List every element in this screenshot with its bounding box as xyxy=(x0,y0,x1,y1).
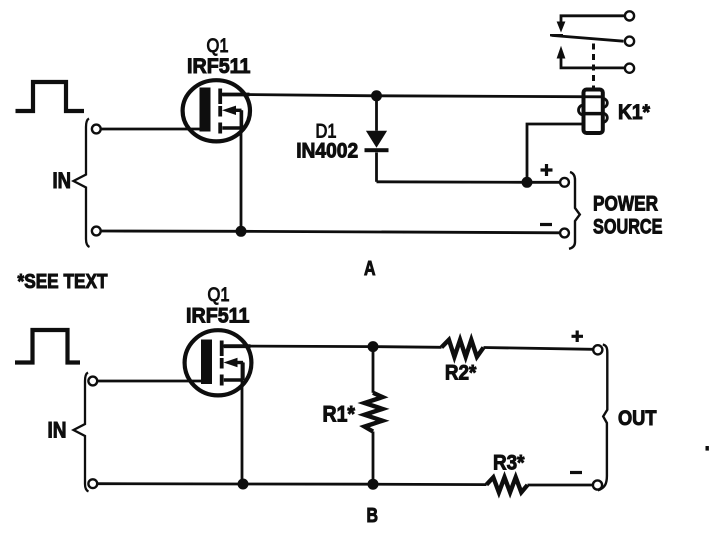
wire drain B xyxy=(223,346,442,347)
power minus terminal xyxy=(560,229,569,238)
svg-text:K1*: K1* xyxy=(618,101,651,124)
relay armature pivot tick xyxy=(550,34,563,36)
relay coil K1 xyxy=(579,90,608,134)
plus sign A xyxy=(541,164,553,176)
relay NO contact line with up arrow xyxy=(557,46,625,68)
relay contact terminal 1 xyxy=(625,11,634,20)
wire R2 to plus terminal B xyxy=(484,348,593,350)
svg-text:IN: IN xyxy=(48,418,67,443)
svg-text:*SEE TEXT: *SEE TEXT xyxy=(18,271,108,293)
wire bottom rail B left xyxy=(97,482,486,486)
OUT side brace wire xyxy=(598,345,608,491)
input pulse waveform A xyxy=(16,82,85,111)
OUT plus terminal xyxy=(593,345,602,354)
IN bottom terminal A xyxy=(92,227,101,236)
wire source A xyxy=(240,110,243,231)
resistor R3 xyxy=(487,477,528,492)
wire drain A xyxy=(222,94,602,97)
transistor Q1 (B) xyxy=(185,330,252,395)
node drain-diode junction A xyxy=(371,90,382,101)
node source junction B xyxy=(238,479,249,490)
IN brace B xyxy=(74,373,89,492)
IN top terminal B xyxy=(88,377,97,386)
wire diode to plus node A xyxy=(377,180,560,183)
node top junction B xyxy=(368,341,379,352)
transistor Q1 (A) xyxy=(183,80,250,141)
input pulse waveform B xyxy=(15,330,80,363)
IN bottom terminal B xyxy=(88,479,97,488)
plus sign B xyxy=(572,331,584,343)
resistor R1 xyxy=(365,347,383,485)
wire bottom rail A xyxy=(101,231,560,233)
node R1 bottom junction B xyxy=(368,479,379,490)
node source junction A xyxy=(236,226,247,237)
svg-text:POWER: POWER xyxy=(593,191,658,215)
svg-text:SOURCE: SOURCE xyxy=(593,215,663,239)
minus sign B xyxy=(570,471,582,474)
power source brace xyxy=(569,172,580,249)
wire gate B xyxy=(97,380,206,383)
OUT minus terminal xyxy=(593,480,602,489)
wire coil bottom to plus node A xyxy=(527,124,584,182)
minus sign A xyxy=(540,223,552,226)
svg-text:IN: IN xyxy=(53,168,72,193)
relay linkage dashed line xyxy=(592,44,595,89)
stray mark xyxy=(706,446,709,451)
relay contact terminal 3 xyxy=(625,64,634,73)
IN brace A xyxy=(74,119,90,248)
wire gate A xyxy=(101,128,205,131)
node plus junction A xyxy=(522,177,533,188)
svg-text:Q1: Q1 xyxy=(208,285,230,306)
power plus terminal xyxy=(560,178,569,187)
IN top terminal A xyxy=(92,125,101,134)
relay contact terminal 2 xyxy=(625,37,634,46)
svg-text:R3*: R3* xyxy=(493,451,525,475)
relay NC contact line with down arrow xyxy=(557,16,625,33)
svg-text:B: B xyxy=(367,505,379,527)
svg-text:R1*: R1* xyxy=(323,402,356,427)
svg-text:IRF511: IRF511 xyxy=(187,55,251,78)
svg-text:OUT: OUT xyxy=(618,407,657,430)
resistor R2 xyxy=(442,340,484,357)
svg-text:IN4002: IN4002 xyxy=(296,139,358,163)
diode D1 xyxy=(365,96,389,182)
svg-text:R2*: R2* xyxy=(445,361,477,385)
svg-text:A: A xyxy=(364,258,376,280)
relay armature xyxy=(552,35,624,41)
wire source B xyxy=(241,362,244,484)
wire R3 to minus terminal B xyxy=(528,484,593,487)
svg-text:IRF511: IRF511 xyxy=(186,305,250,328)
